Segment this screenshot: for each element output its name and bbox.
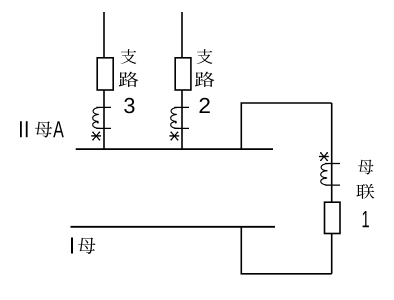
label: I (bus I name) [71, 237, 73, 253]
wire bus-tie bottom horizontal [241, 273, 332, 275]
label: Zhi (branch 2) [197, 49, 213, 64]
wire bus-tie top horizontal [241, 102, 332, 104]
breaker QF1 (bus coupler) [325, 202, 341, 233]
label: A (bus II-A name) [53, 121, 64, 137]
wire branch 3 vertical (top feeder) [103, 12, 105, 150]
busbar I (bottom bus) [71, 226, 276, 228]
CT coil TA-tie (bus coupler current transformer) [321, 164, 340, 186]
label: Mu (bus I name) [78, 238, 96, 254]
polarity asterisk of TA2 [169, 131, 179, 140]
label: Lu (branch 3) [119, 72, 139, 87]
label: II (bus II-A name) [20, 121, 22, 137]
label: 1 (bus coupler) [363, 211, 369, 227]
CT coil TA3 (branch 3 current transformer) [93, 107, 111, 128]
wire bus-tie right vertical [331, 103, 333, 274]
label: Zhi (branch 3) [121, 49, 137, 64]
label: 2 (branch 2) [199, 98, 209, 113]
breaker QF2 (branch 2) [175, 58, 191, 90]
label: Mu (bus II-A name) [35, 121, 52, 137]
label: Lian (bus coupler) [356, 184, 374, 199]
label: Lu (branch 2) [195, 72, 215, 87]
breaker QF3 (branch 3) [97, 58, 113, 90]
wire bus-tie left vertical from bus I down [240, 227, 242, 274]
polarity asterisk of TA-tie [319, 152, 329, 161]
CT coil TA2 (branch 2 current transformer) [171, 107, 189, 128]
wire branch 2 vertical (top feeder) [181, 12, 183, 150]
label: 3 (branch 3) [124, 98, 134, 114]
polarity asterisk of TA3 [91, 131, 101, 140]
label: Mu (bus coupler) [358, 160, 374, 175]
busbar II-A (top bus) [76, 148, 273, 150]
wire bus-tie left vertical from bus II-A up [240, 103, 242, 150]
